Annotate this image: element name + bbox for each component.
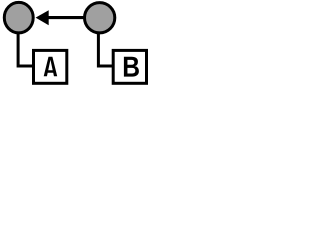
wire: right elbow connector from right circle down to box B: [98, 30, 113, 66]
box A: [34, 50, 67, 83]
background: [0, 0, 150, 87]
wire: arrow shaft from right circle to left circle: [48, 16, 84, 19]
wire: left elbow connector from left circle down to box A: [18, 30, 34, 66]
node circle (right, gray): [85, 3, 115, 33]
node circle (left, gray): [4, 2, 33, 33]
label A: [44, 57, 58, 77]
box B: [113, 50, 146, 83]
arrowhead pointing left at left circle: [36, 10, 49, 25]
label B: [124, 57, 139, 77]
